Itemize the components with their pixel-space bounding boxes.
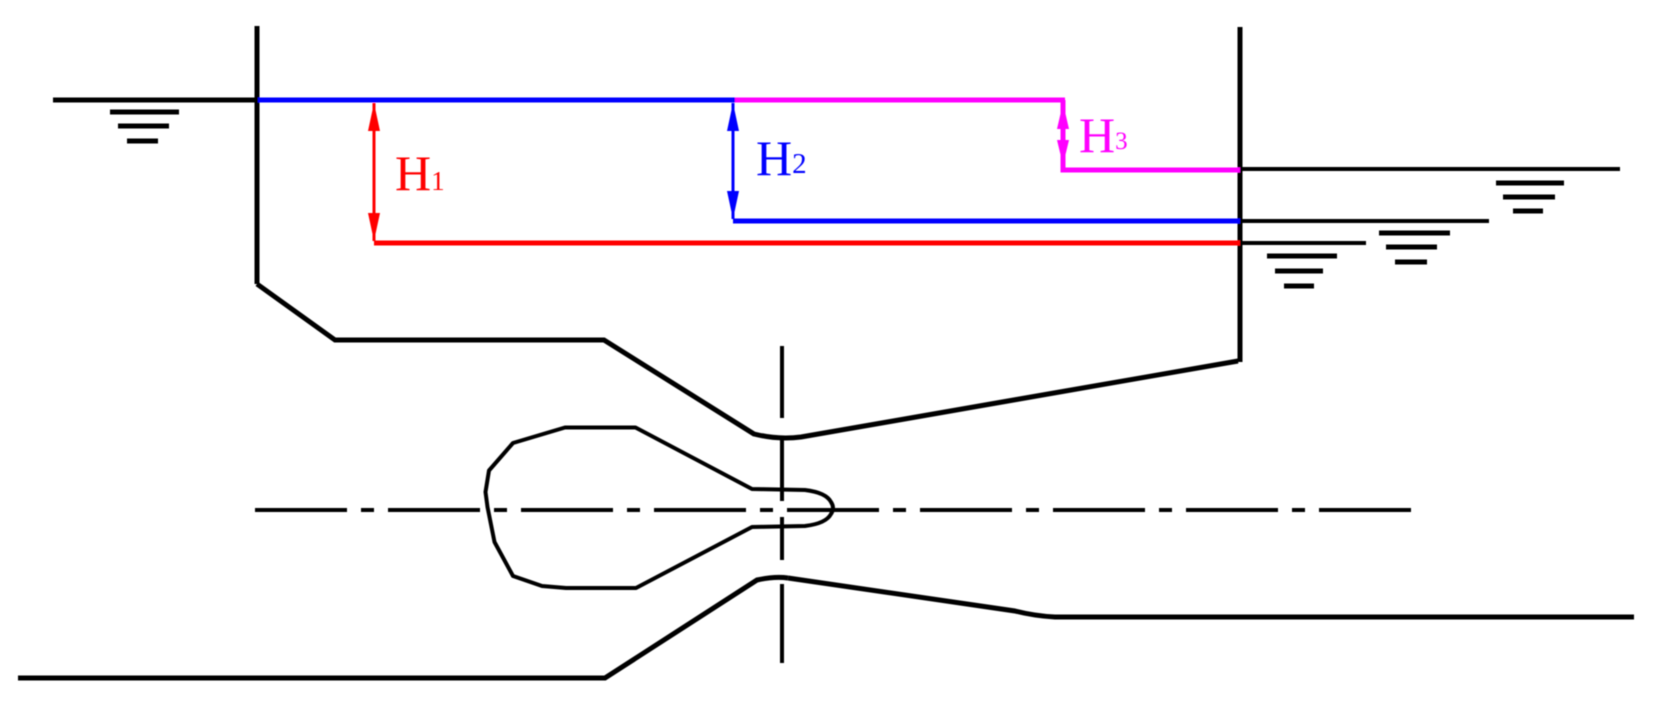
svg-text:H1: H1 [395,145,445,201]
lower draft tube wall (right) [788,578,1634,617]
turbine bulb body [486,428,834,589]
magenta step down [1063,100,1240,170]
tailwater symbol 1 [1496,183,1564,211]
tailwater line 2 (middle) [1240,219,1489,223]
blue headwater level line (top) [258,98,735,103]
upstream water level symbol [110,112,179,141]
tailwater line 1 (highest) [1240,167,1620,171]
draft tube vertical wall (right) [1238,27,1243,362]
svg-text:H3: H3 [1079,107,1128,163]
horizontal centerline (dash-dot axis) [255,508,1415,512]
lower channel floor (left) [18,577,788,678]
intake sloped wall [257,284,1238,438]
dimension arrow H3 (magenta) [1057,103,1069,167]
svg-text:H2: H2 [756,130,807,186]
dimension arrow H1 (red) [368,103,380,241]
intake vertical wall (left) [255,26,260,284]
headwater surface line (upstream) [53,98,258,103]
tailwater symbol 3 [1267,256,1337,286]
tailwater symbol 2 [1379,233,1450,262]
tailwater line 3 (lowest) [1240,241,1366,245]
blue tailwater level line (lower) [733,219,1240,224]
vertical runner axis (dash-dot) [780,346,784,663]
dimension arrow H2 (blue) [727,103,739,219]
magenta top level line [735,98,1065,103]
red tailrace level line [374,241,1240,246]
